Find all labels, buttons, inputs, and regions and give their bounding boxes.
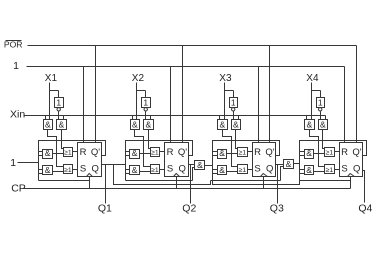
svg-text:&: & bbox=[45, 148, 51, 158]
wire Xin stub to AND A3a bbox=[219, 116, 221, 120]
wire X3 branch to inverter bbox=[225, 90, 234, 92]
wire Q1 output to stage-2 input bus bbox=[102, 164, 126, 166]
wire bus stub to AND A3d input 2 bbox=[213, 173, 218, 175]
wire bottom rail up to AND D3 second input bbox=[281, 167, 284, 181]
svg-text:≥1: ≥1 bbox=[326, 150, 334, 157]
wire FF3 clock stub down to CP rail bbox=[263, 177, 265, 189]
svg-text:≥1: ≥1 bbox=[151, 150, 159, 157]
wire bus stub to AND A3d input 1 bbox=[213, 169, 218, 171]
wire OR G2a output to R pin bbox=[160, 151, 165, 153]
wire Xin stub to AND A4a bbox=[306, 116, 308, 120]
wire Q1 jog down and right along y=184 joining stage-3 bottom rail bbox=[114, 165, 211, 185]
svg-text:&: & bbox=[286, 159, 292, 169]
SR flip-flop FF4 bbox=[340, 143, 363, 177]
AND gate A3a (Xin & X3) bbox=[218, 120, 228, 130]
wire AND A3c output to OR G3a bbox=[227, 153, 238, 155]
wire AND A2b output down to OR G2a input bbox=[149, 130, 151, 149]
inverter U2a (box 1 with bubble) bbox=[142, 98, 151, 108]
FF4 clock edge triangle bbox=[348, 174, 355, 177]
wire inverter output down to AND gate A1b bbox=[58, 112, 60, 120]
wire FF4 clock stub down to CP rail bbox=[350, 177, 352, 189]
OR gate G3b (drives S) bbox=[238, 165, 248, 174]
wire 1-rail drop into FF1 top bbox=[83, 67, 85, 143]
svg-text:&: & bbox=[306, 119, 312, 129]
wire X4 branch to inverter bbox=[312, 90, 321, 92]
wire Q3 output to gating AND D3 bbox=[276, 164, 284, 166]
wire bus stub to AND A4c input 1 bbox=[300, 151, 305, 153]
wire AND A1c output to OR G1a bbox=[53, 153, 64, 155]
AND gate A2d (set product) bbox=[130, 166, 140, 175]
svg-text:1: 1 bbox=[143, 97, 148, 107]
wire OR G4a output to R pin bbox=[335, 151, 340, 153]
wire AND A4c output to OR G4a bbox=[314, 153, 325, 155]
wire stage-3 bus bottom across clock stub to gating AND bbox=[211, 180, 281, 182]
svg-text:R: R bbox=[254, 147, 261, 158]
OR gate G4a (drives R) bbox=[325, 148, 335, 157]
FF2 clock edge triangle bbox=[174, 174, 180, 177]
FF3 clock edge triangle bbox=[261, 174, 268, 177]
wire Q' feedback loop around stage 3 (right up over top, down left bus) bbox=[213, 141, 280, 181]
wire inverter output down to AND gate A3b bbox=[233, 112, 235, 120]
svg-text:R: R bbox=[80, 147, 87, 158]
wire Q' feedback loop around stage 1 (right up over top, down left bus) bbox=[39, 141, 106, 181]
AND gate A3b (Xin & not X3) bbox=[232, 120, 241, 130]
wire AND D2 output to stage-3 input bus bbox=[205, 165, 213, 167]
svg-text:&: & bbox=[132, 148, 138, 158]
svg-text:&: & bbox=[45, 119, 51, 129]
wire stage-4 bus bottom to clock stub bbox=[300, 180, 351, 182]
AND gate A3d (set product) bbox=[218, 166, 227, 175]
wire AND A3d output to OR G3b bbox=[227, 171, 238, 173]
wire from 1 label to stage-1 input bus bbox=[18, 162, 39, 164]
svg-text:&: & bbox=[219, 165, 225, 175]
svg-text:Q': Q' bbox=[91, 147, 100, 158]
wire Q' feedback loop around stage 2 (right up over top, down left bus) bbox=[126, 141, 193, 181]
wire Q3 lead down to label bbox=[277, 165, 279, 204]
wire into inverter U4a input bbox=[320, 91, 322, 98]
svg-text:Q': Q' bbox=[178, 147, 187, 158]
wire AND A4b output down to OR G4a input bbox=[323, 130, 325, 149]
svg-text:Q4: Q4 bbox=[358, 203, 372, 215]
svg-text:&: & bbox=[132, 165, 138, 175]
wire Xin stub to AND A2b bbox=[150, 116, 152, 120]
svg-text:X1: X1 bbox=[45, 73, 58, 84]
wire OR G3a output to R pin bbox=[248, 151, 253, 153]
wire POR rail drop into FF4 top bbox=[356, 46, 358, 143]
wire stage-1 bus bottom to clock stub bbox=[39, 180, 90, 182]
wire X4 vertical lead down to AND gate bbox=[311, 83, 313, 120]
wire Xin stub to AND A2a bbox=[132, 116, 134, 120]
AND gate A1d (set product) bbox=[43, 166, 53, 175]
wire bus stub to AND A1d input 1 bbox=[39, 169, 43, 171]
svg-text:Q: Q bbox=[179, 164, 186, 175]
FF1 clock edge triangle bbox=[87, 174, 93, 177]
svg-text:1: 1 bbox=[13, 60, 19, 72]
svg-text:Q: Q bbox=[266, 164, 273, 175]
AND gate A1c (reset product) bbox=[43, 150, 53, 159]
svg-text:≥1: ≥1 bbox=[239, 150, 247, 157]
wire OR G2b output to S pin bbox=[160, 169, 165, 171]
wire AND D3 output to stage-4 input bus bbox=[294, 163, 300, 165]
wire AND A4d output to OR G4b bbox=[314, 171, 325, 173]
wire X1 vertical lead down to AND gate bbox=[49, 83, 51, 120]
wire Q' feedback loop around stage 4 (right up over top, down left bus) bbox=[300, 141, 367, 181]
svg-text:≥1: ≥1 bbox=[64, 167, 72, 174]
svg-text:&: & bbox=[132, 119, 138, 129]
wire X3 vertical lead down to AND gate bbox=[224, 83, 226, 120]
wire bus stub to AND A2c input 1 bbox=[126, 151, 130, 153]
wire inverter output down to AND gate A4b bbox=[320, 112, 322, 120]
wire AND A2d output to OR G2b bbox=[140, 171, 151, 173]
svg-text:S: S bbox=[341, 164, 347, 175]
wire AND A3b output down to OR G3a input bbox=[236, 130, 238, 149]
wire 1-rail horizontal bbox=[27, 66, 345, 68]
AND gate A4b (Xin & not X4) bbox=[319, 120, 328, 130]
svg-text:Q': Q' bbox=[352, 147, 361, 158]
svg-text:1: 1 bbox=[318, 97, 323, 107]
SR flip-flop FF3 bbox=[253, 143, 276, 177]
svg-text:1: 1 bbox=[231, 97, 236, 107]
inverter U4a (box 1 with bubble) bbox=[317, 98, 325, 108]
svg-text:&: & bbox=[320, 119, 326, 129]
wire bus stub to AND A2d input 1 bbox=[126, 169, 130, 171]
svg-text:&: & bbox=[58, 119, 64, 129]
svg-text:R: R bbox=[167, 147, 174, 158]
svg-text:&: & bbox=[219, 148, 225, 158]
AND gate A2a (Xin & X2) bbox=[131, 120, 140, 130]
wire POR rail drop into FF2 top bbox=[182, 46, 184, 143]
AND gate A1a (Xin & X1) bbox=[44, 120, 53, 130]
wire AND A4a output down to OR G4b input bbox=[310, 130, 325, 167]
OR gate G2a (drives R) bbox=[151, 148, 160, 157]
wire POR rail horizontal bbox=[28, 45, 357, 47]
wire Q4 output right and down to label bbox=[363, 171, 365, 203]
svg-text:Q3: Q3 bbox=[270, 203, 284, 215]
wire 1-rail drop into FF4 top bbox=[344, 67, 346, 143]
svg-text:S: S bbox=[80, 164, 86, 175]
wire stage-2 bus bottom across clock stub to gating AND bbox=[126, 180, 193, 182]
wire bus stub to AND A2d input 2 bbox=[126, 173, 130, 175]
wire into inverter U2a input bbox=[145, 91, 147, 98]
wire AND A2a output down to OR G2b input bbox=[135, 130, 151, 167]
wire AND A2c output to OR G2a bbox=[140, 153, 151, 155]
AND gate A4d (set product) bbox=[305, 166, 314, 175]
svg-text:Xin: Xin bbox=[10, 108, 25, 120]
wire lower inter-stage rail under stages 3-4 bbox=[213, 181, 300, 185]
wire Xin stub to AND A1a bbox=[45, 116, 47, 120]
svg-text:&: & bbox=[219, 119, 225, 129]
wire AND A1a output down to OR G1b input bbox=[48, 130, 64, 167]
wire OR G1a output to R pin bbox=[73, 151, 78, 153]
AND gate A3c (reset product) bbox=[218, 150, 227, 159]
svg-text:&: & bbox=[197, 160, 203, 170]
wire FF2 clock stub down to CP rail bbox=[176, 177, 178, 189]
wire bus stub to AND A4c input 2 bbox=[300, 155, 305, 157]
wire 1-rail drop into FF3 top bbox=[258, 67, 260, 143]
wire into inverter U3a input bbox=[233, 91, 235, 98]
wire bus stub to AND A1d input 2 bbox=[39, 173, 43, 175]
svg-text:≥1: ≥1 bbox=[239, 167, 247, 174]
svg-text:&: & bbox=[145, 119, 151, 129]
svg-text:X4: X4 bbox=[306, 73, 319, 84]
OR gate G4b (drives S) bbox=[325, 165, 335, 174]
wire bus stub to AND A4d input 2 bbox=[300, 173, 305, 175]
wire Xin rail horizontal bbox=[24, 115, 326, 117]
AND gate A2b (Xin & not X2) bbox=[144, 120, 154, 130]
wire bus stub to AND A3c input 1 bbox=[213, 151, 218, 153]
wire OR G3b output to S pin bbox=[248, 169, 253, 171]
svg-text:&: & bbox=[233, 119, 239, 129]
wire X1 branch to inverter bbox=[50, 90, 59, 92]
wire Q2 output to gating AND D2 bbox=[189, 164, 195, 166]
SR flip-flop FF2 bbox=[165, 143, 189, 177]
wire FF1 clock stub down to CP rail bbox=[89, 177, 91, 189]
OR gate G2b (drives S) bbox=[151, 165, 160, 174]
wire bottom rail up to AND D2 second input bbox=[193, 168, 195, 181]
wire POR rail drop into FF3 top bbox=[269, 46, 271, 143]
svg-text:Q: Q bbox=[353, 164, 360, 175]
wire OR G1b output to S pin bbox=[73, 169, 78, 171]
AND gate D2 (inter-stage gating) bbox=[195, 161, 205, 170]
wire Q2 lead down to label bbox=[190, 165, 192, 204]
OR gate G1b (drives S) bbox=[64, 165, 73, 174]
AND gate D3 (inter-stage gating) bbox=[284, 160, 294, 169]
svg-text:Q: Q bbox=[92, 164, 99, 175]
wire bus stub to AND A3c input 2 bbox=[213, 155, 218, 157]
svg-text:Q1: Q1 bbox=[98, 203, 112, 215]
svg-text:≥1: ≥1 bbox=[64, 150, 72, 157]
svg-text:Q2: Q2 bbox=[182, 203, 196, 215]
wire X2 vertical lead down to AND gate bbox=[136, 83, 138, 120]
wire CP rail horizontal bbox=[23, 188, 351, 190]
wire 1-rail drop into FF2 top bbox=[170, 67, 172, 143]
svg-text:X2: X2 bbox=[132, 73, 145, 84]
overline bar above POR bbox=[6, 40, 22, 42]
AND gate A4c (reset product) bbox=[305, 150, 314, 159]
svg-text:≥1: ≥1 bbox=[326, 167, 334, 174]
wire into inverter U1a input bbox=[58, 91, 60, 98]
wire bus stub to AND A1c input 1 bbox=[39, 151, 43, 153]
svg-text:S: S bbox=[254, 164, 260, 175]
wire bus stub to AND A4d input 1 bbox=[300, 169, 305, 171]
svg-text:&: & bbox=[306, 148, 312, 158]
wire AND A3a output down to OR G3b input bbox=[223, 130, 238, 167]
wire Xin stub to AND A4b bbox=[325, 116, 327, 120]
AND gate A2c (reset product) bbox=[130, 150, 140, 159]
OR gate G1a (drives R) bbox=[64, 148, 73, 157]
wire Q1 lead down to label bbox=[105, 165, 107, 204]
wire bus stub to AND A2c input 2 bbox=[126, 155, 130, 157]
SR flip-flop FF1 bbox=[78, 143, 102, 177]
wire X2 branch to inverter bbox=[137, 90, 146, 92]
wire Xin stub to AND A3b bbox=[238, 116, 240, 120]
wire bus stub to AND A1c input 2 bbox=[39, 155, 43, 157]
AND gate A4a (Xin & X4) bbox=[305, 120, 315, 130]
svg-text:S: S bbox=[167, 164, 173, 175]
wire POR rail drop into FF1 top bbox=[95, 46, 97, 143]
wire inverter output down to AND gate A2b bbox=[145, 112, 147, 120]
svg-text:&: & bbox=[45, 165, 51, 175]
AND gate A1b (Xin & not X1) bbox=[57, 120, 67, 130]
wire Xin stub to AND A1b bbox=[63, 116, 65, 120]
svg-text:≥1: ≥1 bbox=[151, 167, 159, 174]
svg-text:1: 1 bbox=[10, 157, 16, 169]
OR gate G3a (drives R) bbox=[238, 148, 248, 157]
wire AND A1b output down to OR G1a input bbox=[62, 130, 64, 149]
svg-text:1: 1 bbox=[56, 97, 61, 107]
inverter U3a (box 1 with bubble) bbox=[230, 98, 238, 108]
inverter U1a (box 1 with bubble) bbox=[55, 98, 64, 108]
wire OR G4b output to S pin bbox=[335, 169, 340, 171]
svg-text:X3: X3 bbox=[219, 73, 232, 84]
svg-text:&: & bbox=[306, 165, 312, 175]
svg-text:R: R bbox=[341, 147, 348, 158]
svg-text:Q': Q' bbox=[265, 147, 274, 158]
wire AND A1d output to OR G1b bbox=[53, 171, 64, 173]
